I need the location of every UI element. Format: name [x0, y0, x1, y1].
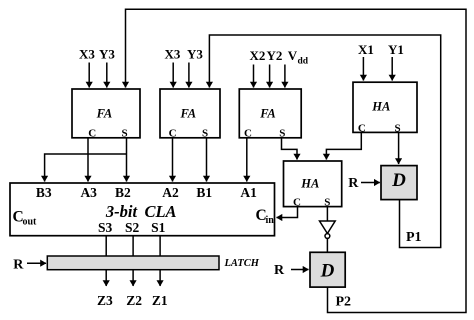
svg-text:out: out	[23, 217, 38, 228]
svg-text:dd: dd	[298, 57, 309, 67]
svg-text:FA: FA	[96, 106, 113, 120]
svg-text:CLA: CLA	[144, 202, 176, 221]
svg-text:D: D	[391, 170, 406, 191]
svg-text:R: R	[348, 176, 359, 191]
svg-text:in: in	[266, 215, 275, 226]
svg-text:B1: B1	[196, 185, 212, 200]
svg-text:R: R	[13, 258, 24, 273]
svg-text:A1: A1	[240, 185, 257, 200]
svg-text:S: S	[279, 127, 285, 139]
svg-text:S: S	[202, 127, 208, 139]
svg-text:Y1: Y1	[388, 42, 404, 57]
svg-text:3-bit: 3-bit	[105, 202, 138, 221]
svg-text:S: S	[121, 127, 127, 139]
svg-text:Y3: Y3	[99, 47, 115, 62]
svg-text:FA: FA	[180, 106, 197, 120]
svg-text:C: C	[169, 127, 177, 139]
svg-text:FA: FA	[259, 106, 276, 120]
svg-text:R: R	[274, 263, 285, 278]
svg-text:Y3: Y3	[187, 47, 203, 62]
svg-text:Z2: Z2	[126, 293, 142, 308]
svg-text:Z1: Z1	[152, 293, 168, 308]
svg-text:HA: HA	[300, 176, 319, 190]
svg-text:B2: B2	[115, 185, 131, 200]
svg-text:C: C	[244, 127, 252, 139]
svg-text:P2: P2	[336, 295, 352, 310]
svg-text:P1: P1	[406, 230, 422, 245]
svg-text:V: V	[288, 48, 298, 63]
svg-text:S: S	[394, 122, 400, 134]
svg-text:S3: S3	[98, 220, 113, 235]
svg-text:S: S	[324, 197, 330, 209]
svg-text:X3: X3	[165, 47, 181, 62]
svg-text:X2: X2	[250, 48, 266, 63]
svg-text:B3: B3	[36, 185, 52, 200]
svg-text:A2: A2	[162, 185, 179, 200]
svg-text:HA: HA	[371, 99, 390, 113]
svg-text:A3: A3	[80, 185, 97, 200]
svg-text:LATCH: LATCH	[224, 258, 260, 269]
svg-text:S1: S1	[151, 220, 166, 235]
svg-text:Z3: Z3	[97, 293, 113, 308]
svg-text:X3: X3	[79, 47, 95, 62]
svg-text:Y2: Y2	[267, 48, 283, 63]
svg-text:S2: S2	[125, 220, 140, 235]
svg-text:C: C	[293, 197, 301, 209]
svg-text:D: D	[320, 260, 335, 281]
svg-text:C: C	[358, 122, 366, 134]
svg-text:C: C	[88, 127, 96, 139]
svg-text:X1: X1	[358, 42, 374, 57]
